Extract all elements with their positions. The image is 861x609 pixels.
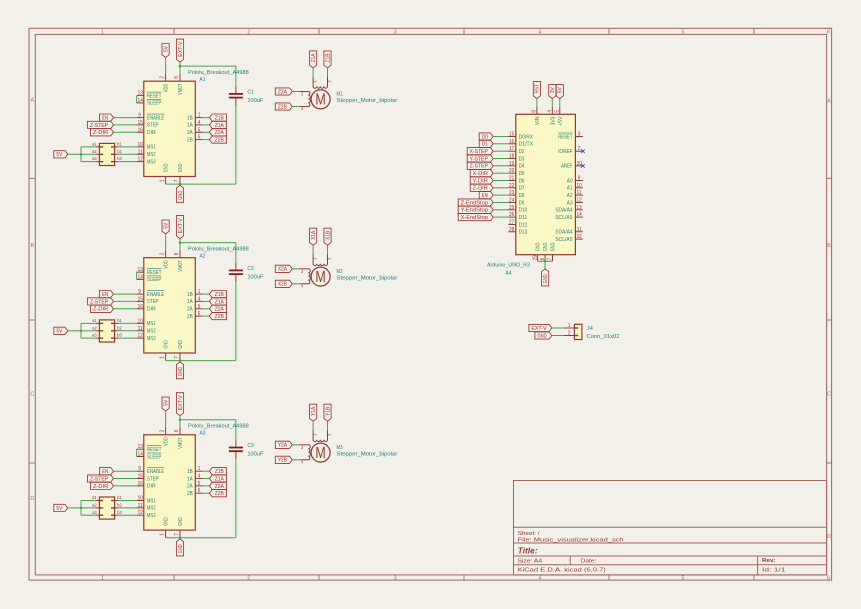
svg-text:C: C [827,391,831,397]
svg-text:C3: C3 [247,443,253,449]
svg-text:X2B: X2B [278,282,287,288]
svg-text:5V: 5V [56,329,62,335]
svg-text:D13: D13 [519,230,528,236]
svg-text:X-DIR: X-DIR [473,171,488,177]
svg-text:D8: D8 [519,193,525,199]
svg-text:4: 4 [539,29,542,35]
svg-text:5V: 5V [558,87,564,93]
svg-text:A1: A1 [200,77,206,83]
svg-text:C1: C1 [247,90,253,96]
svg-text:X1A: X1A [311,230,317,239]
svg-text:2B: 2B [187,491,193,497]
svg-text:Y2A: Y2A [278,443,287,449]
svg-text:1: 1 [101,29,104,35]
svg-text:a3: a3 [92,510,97,515]
svg-text:28: 28 [509,227,514,233]
svg-text:Pololu_Breakout_A4988: Pololu_Breakout_A4988 [188,70,249,76]
svg-text:Z2A: Z2A [215,307,224,313]
svg-text:J4: J4 [587,326,593,332]
svg-text:16: 16 [138,127,143,133]
svg-text:1A: 1A [187,476,193,482]
svg-text:M: M [315,269,325,286]
svg-text:STEP: STEP [147,123,159,129]
svg-text:1: 1 [568,323,571,329]
svg-text:D2: D2 [519,149,525,155]
svg-text:10: 10 [577,183,582,189]
svg-text:Id: 1/1: Id: 1/1 [762,568,786,574]
svg-text:b2: b2 [117,149,122,154]
svg-text:5V: 5V [56,506,62,512]
svg-text:MS1: MS1 [147,145,156,151]
svg-text:D10: D10 [519,208,528,214]
svg-text:MS2: MS2 [147,506,156,512]
svg-text:19: 19 [509,161,514,167]
svg-text:STEP: STEP [147,299,159,305]
svg-text:2A: 2A [187,130,193,136]
svg-text:32: 32 [577,234,582,240]
svg-text:16: 16 [138,481,143,487]
svg-text:M: M [315,92,325,109]
svg-text:1B: 1B [187,469,193,475]
svg-text:M2: M2 [337,269,343,275]
svg-text:2: 2 [160,252,166,255]
svg-text:13: 13 [138,444,143,450]
svg-text:2: 2 [568,330,571,336]
svg-text:X-EndStop: X-EndStop [461,215,488,221]
svg-text:AREF: AREF [561,164,573,170]
svg-text:X2A: X2A [278,267,287,273]
svg-text:6: 6 [827,575,830,581]
svg-text:1: 1 [198,289,201,295]
svg-text:8: 8 [532,110,538,113]
svg-text:2: 2 [160,76,166,79]
svg-text:b3: b3 [117,156,122,161]
svg-text:2: 2 [160,430,166,433]
svg-text:1: 1 [198,466,201,472]
svg-text:14: 14 [577,212,582,218]
svg-text:EXT-V: EXT-V [178,218,184,234]
svg-text:8: 8 [174,252,180,255]
svg-text:a1: a1 [92,142,97,147]
svg-text:Z1A: Z1A [215,123,224,129]
svg-text:Z1A: Z1A [215,299,224,305]
svg-text:D4: D4 [519,164,525,170]
svg-text:12: 12 [138,510,143,516]
svg-text:Z2A: Z2A [215,130,224,136]
svg-text:D7: D7 [519,186,525,192]
svg-text:A1: A1 [567,186,573,192]
svg-text:11: 11 [577,190,582,196]
svg-text:3V: 3V [550,87,556,93]
svg-text:2: 2 [247,29,250,35]
svg-text:GND: GND [164,163,170,172]
svg-text:3: 3 [394,575,397,581]
svg-text:VDD: VDD [164,437,170,446]
svg-text:13: 13 [138,91,143,97]
svg-text:Z2B: Z2B [215,138,224,144]
svg-text:D: D [30,496,34,502]
svg-text:Z1B: Z1B [215,292,224,298]
svg-text:D: D [827,534,831,540]
svg-text:13: 13 [138,267,143,273]
svg-text:11: 11 [138,326,143,332]
svg-text:6: 6 [540,258,546,261]
svg-text:VMOT: VMOT [178,437,184,449]
svg-text:Sheet: /: Sheet: / [518,531,541,537]
svg-text:Y-STEP: Y-STEP [470,156,489,162]
svg-text:24: 24 [509,198,514,204]
svg-text:Stepper_Motor_bipolar: Stepper_Motor_bipolar [337,276,398,282]
svg-text:MS2: MS2 [147,329,156,335]
svg-text:b1: b1 [117,318,122,323]
svg-text:6: 6 [198,488,201,494]
svg-text:A2: A2 [200,254,206,260]
svg-text:X-STEP: X-STEP [470,149,489,155]
svg-text:5: 5 [198,481,201,487]
svg-text:D5: D5 [519,171,525,177]
svg-text:DIR: DIR [147,307,156,313]
svg-text:14: 14 [138,452,143,458]
svg-text:Arduino_UNO_R3: Arduino_UNO_R3 [487,262,530,268]
svg-text:12: 12 [138,157,143,163]
svg-text:6: 6 [198,311,201,317]
svg-text:EN: EN [102,292,108,298]
svg-text:DIR: DIR [147,484,156,490]
svg-text:A: A [30,97,34,103]
svg-text:a2: a2 [92,149,97,154]
svg-text:1A: 1A [187,123,193,129]
svg-text:Z-EndStop: Z-EndStop [461,200,488,206]
svg-text:VDD: VDD [164,83,170,92]
svg-text:Conn_01x02: Conn_01x02 [587,334,620,340]
svg-text:GND: GND [543,242,549,251]
svg-text:RESET: RESET [147,93,162,99]
svg-text:+5V: +5V [558,116,564,126]
svg-text:7: 7 [547,258,553,261]
svg-text:Z-DIR: Z-DIR [473,186,488,192]
svg-text:16: 16 [138,304,143,310]
svg-text:SLEEP: SLEEP [147,277,162,283]
svg-text:5: 5 [682,29,685,35]
svg-text:b2: b2 [117,503,122,508]
svg-text:M: M [315,445,325,462]
svg-text:b1: b1 [117,142,122,147]
svg-text:KiCad E.D.A. kicad (6.0.7): KiCad E.D.A. kicad (6.0.7) [518,568,606,574]
svg-text:SCL/A5: SCL/A5 [555,215,572,221]
svg-text:D11: D11 [519,215,528,221]
svg-text:Z1A: Z1A [311,53,317,62]
svg-text:D1: D1 [482,142,488,148]
svg-text:10: 10 [138,496,143,502]
svg-text:6: 6 [198,135,201,141]
svg-text:MS1: MS1 [147,321,156,327]
svg-text:A3: A3 [200,431,206,437]
svg-text:12: 12 [577,198,582,204]
svg-text:ENABLE: ENABLE [147,115,165,121]
svg-text:100uF: 100uF [247,451,264,457]
svg-text:Z-STEP: Z-STEP [90,476,109,482]
svg-text:2B: 2B [187,314,193,320]
svg-text:1: 1 [160,533,166,536]
svg-text:5V: 5V [163,222,169,228]
svg-text:ENABLE: ENABLE [147,469,165,475]
svg-text:3V3: 3V3 [550,116,556,125]
svg-text:1A: 1A [187,299,193,305]
svg-text:Z2A: Z2A [215,484,224,490]
svg-text:A3: A3 [567,200,573,206]
svg-text:Y1A: Y1A [311,406,317,415]
svg-text:17: 17 [509,146,514,152]
svg-text:6: 6 [827,29,830,35]
svg-text:13: 13 [577,205,582,211]
svg-text:C: C [30,391,34,397]
svg-text:GND: GND [536,242,542,251]
svg-text:C2: C2 [247,266,253,272]
svg-text:1B: 1B [187,115,193,121]
svg-text:9: 9 [138,113,141,119]
svg-text:RESET: RESET [147,447,162,453]
svg-text:MS3: MS3 [147,336,156,342]
svg-text:a3: a3 [92,156,97,161]
svg-text:SLEEP: SLEEP [147,101,162,107]
svg-text:Z1A: Z1A [215,476,224,482]
svg-text:IOREF: IOREF [558,149,573,155]
svg-text:Z1B: Z1B [325,53,331,62]
svg-text:Pololu_Breakout_A4988: Pololu_Breakout_A4988 [188,424,249,430]
svg-text:100uF: 100uF [247,98,264,104]
svg-text:SDA/A4: SDA/A4 [555,208,572,214]
svg-text:26: 26 [509,212,514,218]
svg-text:RESET: RESET [147,270,162,276]
svg-text:GND: GND [543,274,549,283]
svg-text:Date:: Date: [580,559,596,565]
svg-text:EXT-V: EXT-V [178,395,184,411]
svg-text:Z2B: Z2B [215,314,224,320]
svg-text:EXT-V: EXT-V [531,326,547,332]
svg-text:GND: GND [164,340,170,349]
svg-text:4: 4 [539,575,542,581]
svg-text:4: 4 [198,120,201,126]
svg-text:A2: A2 [567,193,573,199]
svg-text:8: 8 [174,76,180,79]
svg-text:10: 10 [138,318,143,324]
svg-text:4: 4 [198,296,201,302]
svg-text:GND: GND [164,517,170,526]
svg-text:M1: M1 [337,92,343,98]
svg-text:GND: GND [178,517,184,526]
svg-text:9: 9 [138,289,141,295]
svg-text:b3: b3 [117,333,122,338]
svg-text:7: 7 [174,179,180,182]
svg-text:18: 18 [509,154,514,160]
svg-text:A0: A0 [567,178,573,184]
svg-text:9: 9 [578,176,581,182]
svg-text:GND: GND [178,191,184,200]
svg-text:Z2B: Z2B [278,104,287,110]
svg-text:2: 2 [578,146,581,152]
svg-text:SCL/A5: SCL/A5 [555,237,572,243]
svg-text:GND: GND [178,163,184,172]
svg-text:VDD: VDD [164,260,170,269]
svg-text:X1B: X1B [325,230,331,239]
svg-text:GND: GND [178,544,184,553]
svg-text:D1/TX: D1/TX [519,142,534,148]
svg-text:Z-DIR: Z-DIR [93,307,108,313]
svg-text:Rev:: Rev: [762,558,776,564]
svg-text:VMOT: VMOT [178,259,184,271]
svg-text:D3: D3 [519,156,525,162]
svg-text:EN: EN [102,469,108,475]
svg-text:Y-EndStop: Y-EndStop [461,208,488,214]
svg-text:ENABLE: ENABLE [147,292,165,298]
svg-text:MS3: MS3 [147,513,156,519]
svg-text:RESET: RESET [558,134,573,140]
svg-text:b1: b1 [117,495,122,500]
svg-text:11: 11 [138,149,143,155]
svg-text:a1: a1 [92,318,97,323]
svg-text:21: 21 [509,176,514,182]
svg-text:15: 15 [138,120,143,126]
svg-text:16: 16 [509,139,514,145]
svg-text:7: 7 [174,356,180,359]
svg-text:Size: A4: Size: A4 [518,559,543,565]
svg-text:GND: GND [551,242,557,251]
svg-text:a2: a2 [92,503,97,508]
svg-text:D12: D12 [519,222,528,228]
svg-text:B: B [30,243,34,249]
svg-text:3: 3 [394,29,397,35]
svg-text:5: 5 [198,127,201,133]
svg-text:Z1B: Z1B [215,116,224,122]
svg-text:GND: GND [178,340,184,349]
svg-text:MS3: MS3 [147,159,156,165]
svg-text:29: 29 [532,255,538,260]
svg-text:2A: 2A [187,307,193,313]
svg-text:14: 14 [138,98,143,104]
svg-text:DIR: DIR [147,130,156,136]
svg-text:VIN: VIN [535,116,541,125]
svg-text:Z-DIR: Z-DIR [93,484,108,490]
svg-text:Z2B: Z2B [215,491,224,497]
svg-text:31: 31 [577,227,582,233]
svg-text:9: 9 [138,466,141,472]
svg-text:4: 4 [198,474,201,480]
svg-text:15: 15 [509,132,514,138]
svg-text:22: 22 [509,183,514,189]
svg-text:Y2B: Y2B [278,458,287,464]
svg-text:STEP: STEP [147,476,159,482]
svg-text:Title:: Title: [518,545,538,555]
svg-text:5V: 5V [56,152,62,158]
svg-text:Z2A: Z2A [278,89,287,95]
svg-text:4: 4 [547,110,553,113]
svg-text:11: 11 [138,503,143,509]
svg-text:Y-DIR: Y-DIR [473,178,488,184]
svg-text:EN: EN [482,193,488,199]
svg-text:14: 14 [138,274,143,280]
svg-text:5V: 5V [163,399,169,405]
svg-text:SLEEP: SLEEP [147,454,162,460]
svg-text:a2: a2 [92,325,97,330]
svg-text:3: 3 [578,132,581,138]
svg-text:M3: M3 [337,445,343,451]
svg-text:D0/RX: D0/RX [519,134,534,140]
svg-text:VMOT: VMOT [178,83,184,95]
svg-text:D0: D0 [482,134,488,140]
svg-text:Z1B: Z1B [215,469,224,475]
svg-text:SDA/A4: SDA/A4 [555,230,572,236]
svg-text:EXT-V: EXT-V [178,41,184,57]
svg-text:1B: 1B [187,292,193,298]
svg-text:2: 2 [247,575,250,581]
svg-text:25: 25 [509,205,514,211]
svg-text:Stepper_Motor_bipolar: Stepper_Motor_bipolar [337,98,398,104]
svg-text:5: 5 [198,304,201,310]
svg-text:27: 27 [509,220,514,226]
svg-text:5V: 5V [163,46,169,52]
svg-text:15: 15 [138,474,143,480]
svg-text:1: 1 [101,575,104,581]
svg-text:RST: RST [535,84,541,94]
svg-text:D6: D6 [519,178,525,184]
svg-text:10: 10 [138,142,143,148]
svg-text:5: 5 [682,575,685,581]
svg-text:2B: 2B [187,137,193,143]
svg-text:EN: EN [102,116,108,122]
svg-text:2A: 2A [187,484,193,490]
svg-text:D9: D9 [519,200,525,206]
svg-text:23: 23 [509,190,514,196]
svg-text:b2: b2 [117,325,122,330]
svg-text:Pololu_Breakout_A4988: Pololu_Breakout_A4988 [188,247,249,253]
svg-text:a1: a1 [92,495,97,500]
svg-text:GND: GND [178,367,184,376]
svg-text:MS1: MS1 [147,498,156,504]
svg-text:Y1B: Y1B [325,406,331,415]
svg-text:B: B [827,243,831,249]
svg-text:1: 1 [160,179,166,182]
svg-text:MS2: MS2 [147,152,156,158]
svg-text:Z-DIR: Z-DIR [93,130,108,136]
svg-text:Stepper_Motor_bipolar: Stepper_Motor_bipolar [337,452,398,458]
svg-text:1: 1 [160,356,166,359]
svg-text:7: 7 [174,533,180,536]
svg-text:a3: a3 [92,333,97,338]
svg-text:Z-STEP: Z-STEP [470,164,489,170]
svg-text:A4: A4 [506,271,512,277]
svg-text:GND: GND [537,333,546,339]
svg-text:8: 8 [174,430,180,433]
svg-text:5: 5 [555,110,561,113]
svg-text:b3: b3 [117,510,122,515]
svg-text:Z-STEP: Z-STEP [90,299,109,305]
svg-text:1: 1 [198,113,201,119]
svg-text:20: 20 [509,168,514,174]
svg-text:100uF: 100uF [247,274,264,280]
svg-text:30: 30 [577,161,582,167]
svg-text:File: Music_visualizer.kicad_s: File: Music_visualizer.kicad_sch [518,538,624,544]
svg-text:A: A [827,99,831,105]
svg-text:15: 15 [138,296,143,302]
svg-text:Z-STEP: Z-STEP [90,123,109,129]
svg-text:12: 12 [138,333,143,339]
